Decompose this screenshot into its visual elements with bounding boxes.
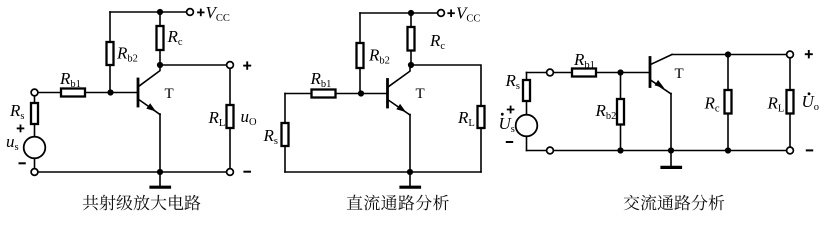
wire: Rc top (mid) [410, 13, 412, 27]
ground (mid) bar [401, 186, 420, 189]
wire: RL bottom to - terminal [229, 128, 231, 169]
wire: top rail middle [360, 12, 438, 14]
wire: Rc bottom to collector node [159, 50, 161, 65]
wire: Rb2 bottom to base node (mid) [359, 68, 361, 94]
wire: Rb2 bottom to base node [109, 65, 111, 93]
resistor Rb1 (left) [61, 89, 85, 97]
wire: RL bottom to rail (mid) [480, 128, 482, 172]
resistor Rs (mid) [282, 123, 289, 146]
wire: collector rail (right) [672, 54, 787, 56]
resistor Rs (right) [523, 80, 530, 101]
terminal: right input bottom [547, 147, 554, 154]
label + (left output) [243, 61, 251, 69]
terminal: right output - [787, 147, 794, 154]
wire: Rc top vertical [159, 12, 161, 26]
label + (right source) [507, 106, 515, 114]
wire: Rs top (mid) [284, 94, 286, 124]
node: left base junction [107, 89, 113, 95]
wire: Rb2 top vertical (mid) [359, 13, 361, 43]
label + (left source) [17, 125, 25, 133]
wire: collector to RL (mid) [411, 65, 481, 106]
label - (right output) [806, 149, 813, 151]
resistor Rb2 [107, 42, 114, 65]
wire: Rc bottom (right) [727, 114, 729, 151]
ground (mid) stub [409, 172, 411, 187]
terminal: left Vcc [187, 9, 194, 16]
terminal: left output + [227, 62, 234, 69]
wire: source to bottom rail (right) [526, 136, 528, 150]
wire: top rail left circuit [110, 11, 187, 13]
node: right Rc bottom junction [725, 147, 731, 153]
resistor Rb1 (mid) [312, 90, 336, 98]
wire: emitter down (mid) [409, 115, 411, 173]
label - (left source) [19, 162, 26, 164]
wire: Rc branch (right) top [727, 55, 729, 91]
label - (right source) [506, 141, 513, 143]
label Us dot (right source) [501, 113, 504, 116]
node: right Rb2 bottom junction [617, 147, 623, 153]
resistor RL (left) [227, 105, 234, 128]
transistor T2 emitter arrow [396, 104, 406, 112]
wire: bottom rail (mid) [285, 171, 481, 173]
wire: source to bottom terminal [34, 158, 36, 168]
node: mid collector junction [408, 62, 414, 68]
transistor T2 emitter line [388, 100, 410, 115]
wire: emitter down (right) [670, 94, 672, 151]
wire: Rs top (left source branch) [34, 96, 36, 103]
terminal: right input top [547, 69, 554, 76]
resistor Rc (right) [725, 90, 732, 114]
resistor Rb1 (right) [572, 69, 596, 77]
transistor T2 collector line [388, 65, 410, 87]
resistor Rb2 (right) [617, 99, 624, 125]
ground (left) stub [159, 172, 161, 187]
caption: 交流通路分析 [624, 195, 725, 211]
resistor RL (mid) [478, 106, 485, 128]
terminal: right output + [787, 51, 794, 58]
wire: Rs branch top (right) [526, 73, 528, 81]
caption: 直流通路分析 [347, 195, 449, 211]
resistor Rc (mid) [408, 27, 415, 51]
wire: + terminal down to RL [229, 68, 231, 105]
ground (right) stub [670, 151, 672, 167]
wire: RL branch (right) top [789, 58, 791, 90]
svg-text:T: T [416, 86, 425, 102]
label - (left output) [243, 171, 251, 173]
node: right emitter/ground junction [668, 147, 674, 153]
transistor T3 emitter line [651, 80, 671, 94]
terminal: left output - [227, 169, 234, 176]
node: right base/Rb2 junction [617, 69, 623, 75]
wire: bottom rail left circuit [38, 171, 227, 173]
node: left emitter/ground junction [157, 169, 163, 175]
wire: Rb1 to base (mid) [336, 93, 387, 95]
ground (left) bar [151, 186, 170, 189]
wire: Rs bottom to rail (mid) [284, 146, 286, 172]
wire: Rs to source (right) [526, 101, 528, 115]
wire: emitter down to ground rail [159, 114, 161, 172]
wire: top rail right (base level) [527, 72, 650, 74]
node: left collector junction [157, 62, 163, 68]
transistor T1 base bar [137, 79, 140, 106]
caption: 共射级放大电路 [83, 195, 201, 211]
node: mid emitter/ground junction [407, 169, 413, 175]
wire: collector node to + terminal [160, 64, 227, 66]
open terminal circles [31, 9, 793, 176]
ground (right) bar [662, 166, 681, 169]
label +Vcc (left) [197, 9, 204, 17]
wire: RL bottom (right) [789, 114, 791, 148]
transistor T3 emitter arrow [655, 80, 665, 88]
wire: Rb2 vertical (right) [620, 73, 622, 100]
terminal: left input top [31, 89, 38, 96]
transistor T1 collector line [139, 65, 160, 86]
wire: Rc bottom to collector node (mid) [410, 51, 412, 66]
label +Vcc (mid) [447, 9, 454, 17]
svg-text:T: T [165, 86, 174, 102]
terminal: mid Vcc [438, 10, 445, 17]
resistor Rc [157, 26, 164, 50]
resistor Rs (left) [31, 103, 38, 124]
transistor T3 base bar [649, 58, 652, 87]
transistor T1 emitter arrow [146, 103, 156, 111]
wire: bottom rail (right) [527, 150, 787, 152]
wire: input terminal to Rb1 [38, 92, 61, 94]
source us circle [24, 137, 46, 159]
wire: Rb2 bottom (right) [620, 125, 622, 151]
node: mid base junction [358, 90, 364, 96]
node: mid Vcc rail junction [408, 10, 414, 16]
node: left Vcc rail junction [157, 9, 163, 15]
node: right collector/Rc junction [725, 51, 731, 57]
wire: Rb2 top vertical [109, 12, 111, 42]
transistor T1 emitter line [139, 100, 160, 115]
wire: base wire (mid) [285, 93, 312, 95]
terminal: left input bottom [31, 169, 38, 176]
wire: Rb1 to base [85, 92, 137, 94]
transistor T2 base bar [386, 80, 389, 108]
label Uo dot (right) [808, 92, 811, 95]
transistor T3 collector line [651, 55, 672, 65]
label + (right output) [805, 50, 813, 58]
wire: Rs to source circle [34, 124, 36, 137]
svg-text:T: T [675, 66, 684, 82]
resistor Rb2 (mid) [357, 43, 364, 68]
source Us circle [516, 115, 538, 137]
resistor RL (right) [787, 90, 794, 114]
